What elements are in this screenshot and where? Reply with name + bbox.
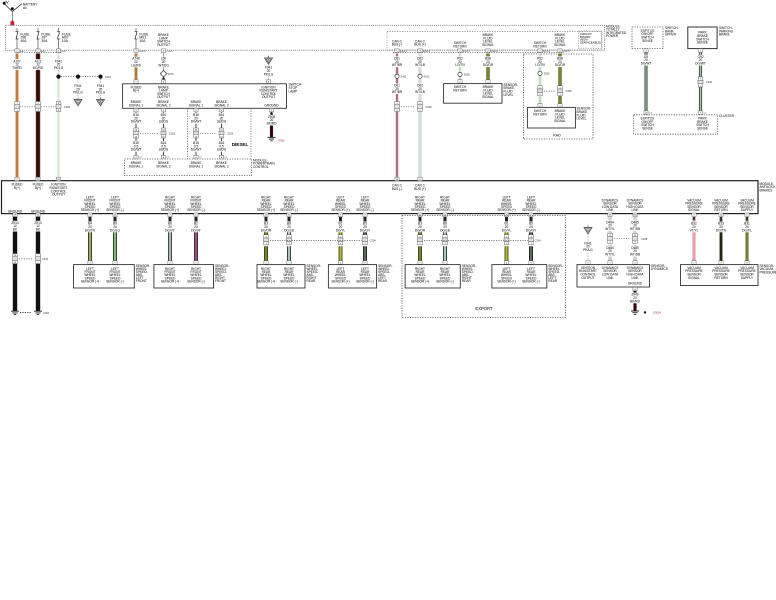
inline connector C306 (RHD)	[538, 86, 573, 96]
svg-text:SWITCHRETURN: SWITCHRETURN	[533, 41, 547, 48]
TIPM pin L50	[161, 49, 174, 53]
label SWITCH-BANK-UPPER	[665, 26, 679, 37]
wire D484 20 WT/YL lower label	[604, 246, 617, 257]
ground G300	[268, 137, 285, 142]
label SENSOR-WHEEL SPEED-ABS (right rear)	[462, 264, 477, 283]
svg-text:C306: C306	[566, 89, 573, 93]
wire Z913 12 BK ground left	[9, 217, 21, 311]
TIPM pin BFL signal RHD	[558, 49, 571, 53]
inline connector on brake signal wire 2	[161, 128, 166, 138]
switch bank upper (ESP/TCS) dashed box	[632, 27, 663, 49]
ABS bottom pin 4 (left front wss +)	[88, 213, 92, 221]
inline connector C308 on left wires	[15, 102, 71, 112]
TIPM pin label SWITCH RETURN	[453, 41, 467, 48]
EXPORT variant dashed box	[402, 216, 566, 318]
sensor wheel speed box (left rear)	[492, 265, 547, 288]
svg-text:C310: C310	[42, 257, 49, 261]
ABS pin 20 fused B+	[36, 177, 40, 181]
TIPM internal dashed partition	[387, 32, 602, 50]
wire B98 20 DG/OR brake fluid level signal	[482, 54, 495, 80]
svg-text:GROUND: GROUND	[31, 209, 46, 213]
svg-text:BRAKESIGNAL 2: BRAKESIGNAL 2	[156, 100, 170, 107]
ground G301 left	[11, 311, 19, 314]
inline connector on brake signal wire 3	[194, 128, 199, 138]
wire P52 20 LG/TN switch return (RHD)	[534, 54, 547, 104]
TIPM pin CAN-	[395, 49, 408, 53]
wire A111 12 DG/RD (fused B+)	[32, 54, 45, 178]
wire D485 20 WT/DB lower label	[629, 246, 642, 257]
svg-text:F30/C4: F30/C4	[139, 51, 147, 53]
svg-text:BRAKEFLUIDLEVELSIGNAL: BRAKEFLUIDLEVELSIGNAL	[482, 85, 494, 99]
sensor wheel speed box (right rear)	[257, 265, 305, 288]
svg-text:C306: C306	[426, 105, 433, 109]
label SENSOR-WHEEL SPEED-ABS (left rear)	[378, 264, 393, 283]
module TIPM (Totally Integrated Power Module) box	[6, 25, 605, 50]
TIPM pin CAN+	[418, 49, 431, 53]
module PCM powertrain control dashed box	[125, 159, 252, 176]
splice ring S411 on CAN C (-)	[395, 74, 407, 78]
inline connector on brake signal wire 4	[219, 128, 224, 138]
svg-text:S376: S376	[168, 72, 175, 76]
stop lamp switch internal labels	[129, 85, 279, 107]
svg-text:SENSOR-DYNAMICS: SENSOR-DYNAMICS	[651, 264, 668, 271]
wheel sensor pin 2	[264, 261, 268, 265]
ABS pin 14 CAN C -	[395, 177, 399, 181]
svg-text:ESP/TCSON/OFFSWITCHSENSE: ESP/TCSON/OFFSWITCHSENSE	[641, 29, 655, 43]
fuse F1 J98 40A	[15, 28, 30, 50]
svg-text:GROUND: GROUND	[8, 209, 23, 213]
switch parking brake box	[688, 27, 717, 49]
ABS pin 1 fused B+	[15, 177, 19, 181]
TIPM pin switch return RHD	[538, 49, 551, 53]
ABS bottom pin 11 (right rear wss -)	[287, 213, 291, 221]
splice ring S302	[458, 72, 470, 76]
stop lamp switch ground pin 2	[269, 108, 273, 114]
svg-text:BRAKEFLUIDLEVELSIGNAL: BRAKEFLUIDLEVELSIGNAL	[554, 109, 566, 123]
battery A0	[3, 0, 39, 12]
sensor dynamics box	[577, 265, 650, 287]
ABS bottom pin 11 (right rear wss -)	[443, 213, 447, 221]
wheel sensor pin 1	[529, 261, 533, 265]
switch S1 stop lamp box	[123, 84, 287, 109]
wire B6 20 DG/VT wheel speed	[164, 221, 177, 260]
ground G301 right	[20, 311, 50, 315]
dynamics sensor ignition pin 3	[586, 261, 590, 265]
wire B32 20 VT/YL vacuum pressure signal	[688, 220, 701, 260]
wire B16 0.5 LB/DG lower segment 4	[216, 141, 228, 152]
svg-text:B: B	[100, 100, 102, 104]
svg-text:-: -	[16, 4, 17, 7]
wire A107 12 TN/RD (fused B+)	[11, 54, 24, 178]
dynamics sensor low data pin 1	[608, 261, 612, 265]
dashed link C304 export rear wheel connectors	[424, 239, 541, 243]
label SENSOR-VACUUM PRESSURE	[760, 264, 776, 275]
ABS bottom pin 10 (right rear wss +)	[264, 213, 268, 221]
arrow into stop lamp switch pin 6	[162, 76, 165, 79]
battery terminal connector (red)	[10, 21, 14, 26]
label SWITCH-STOP LAMP	[289, 83, 303, 94]
dashed link C208 dynamics connectors	[614, 237, 648, 241]
ABS pin 2 vacuum pressure signal	[692, 213, 696, 220]
svg-text:S302: S302	[464, 73, 471, 77]
wire D484 20 WT/YL dynamics low data link	[604, 217, 617, 261]
TIPM pin label CAN C BUS (+)	[414, 39, 425, 46]
svg-text:SWITCHRETURN: SWITCHRETURN	[533, 109, 547, 116]
ABS bottom pin 2 (left rear wss +)	[338, 213, 342, 221]
splice ring S302 (RHD)	[538, 71, 550, 75]
svg-text:A: A	[77, 100, 79, 104]
svg-text:C201: C201	[169, 132, 176, 136]
RHD variant dashed box	[523, 54, 593, 139]
svg-text:L50/C7: L50/C7	[166, 51, 174, 53]
svg-text:BRAKESIGNAL 2: BRAKESIGNAL 2	[214, 161, 228, 168]
sensor brake fluid level box (LHD)	[444, 80, 502, 103]
stop lamp switch bottom pin 2 (brake signal)	[161, 108, 165, 112]
TIPM connector pin row dotted line	[17, 52, 564, 54]
wire B3 20 DG/OR wheel speed	[414, 221, 427, 260]
inline connector on wheel speed wire x=340.5	[334, 235, 347, 246]
wheel sensor pin 2	[418, 261, 422, 265]
fuse F3 M07 10A	[57, 28, 72, 50]
svg-text:CAN CBUS (+): CAN CBUS (+)	[414, 39, 425, 46]
wire B16 20 DG/WT brake signal 1	[130, 112, 142, 155]
svg-text:CAN CBUS (+): CAN CBUS (+)	[414, 184, 425, 191]
wire B16 0.5 DG/WT lower segment 3	[190, 141, 202, 152]
svg-text:DIESEL: DIESEL	[232, 142, 249, 147]
svg-text:A: A	[587, 228, 589, 232]
wire B1 20 DG/YL wheel speed	[334, 221, 347, 260]
wheel sensor pin 2	[88, 261, 92, 265]
inline connector on wheel speed wire x=289	[283, 235, 296, 246]
svg-text:GROUND: GROUND	[628, 282, 643, 286]
circuit board (non-serviceable) dashed box	[579, 31, 602, 48]
svg-text:EXPORT: EXPORT	[475, 306, 493, 311]
label MODULE-TOTALLY INTEGRATED POWER	[606, 24, 627, 38]
wire G9 20 DG/WT ESP/TCS switch sense	[640, 53, 653, 111]
svg-text:C308: C308	[64, 105, 71, 109]
label SENSOR-BRAKE FLUID LEVEL (RHD)	[577, 107, 592, 121]
off-page reference triangle A	[74, 97, 82, 106]
svg-text:BRAKESIGNAL 1: BRAKESIGNAL 1	[189, 100, 203, 107]
wire B98 20 DG/OR brake fluid level signal (RHD)	[554, 54, 567, 104]
wire B31 20 DG/YL vacuum pressure supply	[741, 220, 754, 260]
svg-text:C206: C206	[706, 80, 713, 84]
PCM pin brake signal 2	[161, 155, 170, 159]
fuse F2 J97 30A	[36, 28, 51, 50]
svg-text:VACUUMPRESSURESENSORSUPPLY: VACUUMPRESSURESENSORSUPPLY	[738, 266, 756, 280]
sensor brake fluid level box (RHD)	[527, 104, 575, 128]
ABS bottom pin 3 (left rear wss -)	[529, 213, 533, 221]
stop lamp switch bottom pin 5 (brake signal)	[194, 108, 198, 112]
svg-text:VACUUMPRESSURESENSORRETURN: VACUUMPRESSURESENSORRETURN	[712, 198, 730, 212]
svg-text:RHD: RHD	[553, 133, 561, 137]
svg-text:F97/C5: F97/C5	[543, 51, 551, 53]
inline connector C306 on CAN wires	[395, 102, 433, 112]
svg-text:CAN CBUS (-): CAN CBUS (-)	[392, 184, 403, 191]
TIPM pin E98	[15, 49, 25, 53]
svg-text:E98/C5: E98/C5	[400, 51, 408, 53]
fuse F4 M01 10A	[134, 28, 149, 50]
svg-text:VACUUMPRESSURESENSORRETURN: VACUUMPRESSURESENSORRETURN	[712, 266, 730, 280]
inline connector C310 on ground wires	[13, 254, 49, 264]
ABS top internal labels	[12, 183, 426, 197]
svg-text:S412: S412	[424, 74, 431, 78]
wire Z949 20 BK/RD dynamics ground	[629, 291, 642, 311]
svg-text:C304: C304	[370, 239, 377, 243]
svg-text:C304: C304	[535, 239, 542, 243]
wire B9 20 DG/LG wheel speed	[109, 221, 122, 260]
label CLUSTER	[719, 114, 735, 118]
wire B5 20 DG/GY wheel speed	[359, 221, 372, 260]
splice S301 junction dots and dotted link	[56, 75, 111, 80]
svg-text:S411: S411	[401, 74, 407, 78]
wheel sensor pin 2	[168, 261, 172, 265]
PCM pin brake signal 1	[134, 155, 143, 159]
TIPM pin label SWITCH RETURN (RHD)	[533, 41, 547, 48]
wheel sensor pin 1	[113, 261, 117, 265]
wheel sensor pin 2	[504, 261, 508, 265]
ABS pin 4 CAN C +	[418, 177, 422, 181]
wire P52 20 LG/TN switch return	[454, 54, 467, 80]
label MODULE-POWERTRAIN CONTROL	[253, 158, 275, 169]
TIPM pin label BRAKE FLUID LEVEL SIGNAL (RHD)	[554, 33, 566, 47]
wire Z913 12 BK ground right	[32, 217, 44, 311]
ABS ground pin 13	[36, 213, 40, 217]
TIPM pin F30	[134, 49, 147, 53]
stop lamp switch pin 6	[161, 80, 165, 84]
TIPM pin label BRAKE LAMP SWITCH OUTPUT	[157, 33, 171, 47]
ABS pin 10 vacuum pressure return	[719, 213, 723, 220]
DIESEL variant dashed box	[188, 108, 252, 159]
inline connector on wheel speed wire x=506.5	[500, 235, 513, 246]
svg-text:IGNITIONRUN/STARTCONTROLOUTPUT: IGNITIONRUN/STARTCONTROLOUTPUT	[50, 183, 68, 197]
wire B8 20 DG/LB wheel speed	[283, 221, 296, 260]
wire D485 20 WT/DB dynamics high data link	[629, 217, 642, 261]
sensor wheel speed box (right rear)	[405, 265, 460, 288]
wire B4 20 DG/TN wheel speed	[84, 221, 97, 260]
svg-text:BRAKELAMPSWITCHOUTPUT: BRAKELAMPSWITCHOUTPUT	[157, 85, 171, 99]
svg-text:IGNITIONRUN/STARTCONTROLOUTPUT: IGNITIONRUN/STARTCONTROLOUTPUT	[579, 266, 597, 280]
sensor wheel speed box (left rear)	[328, 265, 376, 288]
svg-text:G302A: G302A	[653, 310, 661, 314]
ABS bottom pin 3 (left rear wss -)	[363, 213, 367, 221]
label SENSOR-BRAKE FLUID LEVEL	[504, 83, 519, 97]
vacuum sensor pin 1	[692, 261, 696, 265]
cluster pins	[644, 111, 707, 115]
ABS pin 6 vacuum pressure supply	[745, 213, 749, 220]
svg-text:S302: S302	[544, 72, 551, 76]
svg-text:BRAKESIGNAL 2: BRAKESIGNAL 2	[156, 161, 170, 168]
inline connector on wheel speed wire x=445	[439, 235, 452, 246]
svg-text:G300: G300	[278, 138, 285, 142]
wire B16 20 DG/WT brake signal 1	[190, 112, 202, 155]
wire F941 20 PK/LG to dynamics sensor	[582, 234, 595, 261]
wire B33 20 DG/TN vacuum pressure return	[715, 220, 728, 260]
wire B3 20 DG/OR wheel speed	[260, 221, 273, 260]
svg-text:BRAKEFLUIDLEVELSIGNAL: BRAKEFLUIDLEVELSIGNAL	[482, 33, 494, 47]
ABS pin 26 dynamics low data	[608, 213, 612, 217]
label SENSOR-WHEEL SPEED-ABS (left front)	[136, 264, 151, 283]
wheel sensor pin 1	[443, 261, 447, 265]
wheel sensor pin 2	[338, 261, 342, 265]
stop lamp switch bottom pin 3 (brake signal)	[134, 108, 138, 112]
branch wire F941 to triangle A	[72, 79, 85, 97]
wire G92 20 DG/WT park brake switch sense	[694, 53, 707, 111]
dashed link inline connectors C201	[140, 132, 176, 136]
label SENSOR-WHEEL SPEED-ABS (right front)	[215, 264, 230, 283]
svg-text:G301: G301	[43, 311, 50, 315]
inline connector C208 on high data wire	[629, 233, 642, 244]
off-page reference triangle A (ignition run/start)	[584, 225, 592, 234]
switch bank pin 3	[644, 49, 648, 53]
wheel sensor pin 1	[287, 261, 291, 265]
svg-text:E107: E107	[61, 51, 67, 53]
wire B16 20 LB/DG brake signal 2	[158, 112, 170, 155]
wire battery to TIPM	[11, 12, 13, 22]
TIPM pin label BRAKE FLUID LEVEL SIGNAL	[482, 33, 494, 47]
label SENSOR-WHEEL SPEED-ABS (left rear)	[548, 264, 563, 283]
ABS bottom pin 2 (left rear wss +)	[504, 213, 508, 221]
svg-text:GROUND: GROUND	[264, 103, 279, 107]
PCM pin brake signal 3	[194, 155, 203, 159]
stop lamp switch bottom pin 6 (brake signal)	[219, 108, 223, 112]
stop lamp switch pin 4	[266, 80, 270, 84]
wheel sensor pin 1	[363, 261, 367, 265]
ABS bottom pin 10 (right rear wss +)	[418, 213, 422, 221]
wire B16 0.5 DG/WT lower segment 1	[130, 141, 142, 152]
svg-text:BRAKELAMPSWITCHOUTPUT: BRAKELAMPSWITCHOUTPUT	[157, 33, 171, 47]
label SENSOR-WHEEL SPEED-ABS (right rear)	[307, 264, 322, 283]
dashed link inline connectors C202	[200, 132, 234, 136]
svg-text:ESP/TCSON/OFFSWITCHSENSE: ESP/TCSON/OFFSWITCHSENSE	[641, 117, 655, 131]
inline connector on wheel speed wire x=365	[359, 235, 372, 246]
TIPM pin label CAN C BUS (-)	[392, 39, 403, 46]
wire D62 20 WT/LB CAN C bus (+)	[414, 54, 427, 178]
wire B2 20 DG/VT wheel speed	[190, 221, 203, 260]
PCM pin brake signal 4	[219, 155, 228, 159]
label SENSOR-DYNAMICS	[651, 264, 668, 271]
wire B1 20 DG/YL wheel speed	[500, 221, 513, 260]
stop lamp switch pin 1	[134, 80, 138, 84]
inline connector C206 on park brake wire	[698, 77, 713, 87]
svg-text:E99/C5: E99/C5	[423, 51, 431, 53]
wire D62 20 WT/LB lower label	[414, 83, 427, 94]
vacuum sensor pin 2	[719, 261, 723, 265]
svg-text:CAN CBUS (-): CAN CBUS (-)	[392, 39, 403, 46]
wire Z908 20 BK/RD ground	[266, 115, 278, 138]
inline connector on wheel speed wire x=420	[414, 235, 427, 246]
off-page reference triangle B	[97, 97, 105, 106]
label MODULE-ANTILOCK BRAKES	[760, 182, 776, 193]
svg-text:F98/C5: F98/C5	[491, 51, 499, 53]
ABS pin 040 dynamics high data	[633, 213, 638, 217]
sensor wheel speed box (left front)	[74, 265, 135, 288]
TIPM pin E107	[56, 49, 67, 53]
ground G302A	[631, 310, 661, 314]
splice ring S412 on CAN C (+)	[418, 74, 430, 78]
TIPM pin switch return	[458, 49, 471, 53]
svg-text:BRAKESIGNAL 1: BRAKESIGNAL 1	[129, 100, 143, 107]
vacuum sensor pin 3	[745, 261, 749, 265]
wire A748 20 LG/RD fused B+ to stop lamp switch	[130, 54, 143, 80]
wire F941 20 PK/LG (ign run/start)	[52, 54, 65, 178]
svg-text:SWITCHRETURN: SWITCHRETURN	[453, 41, 467, 48]
svg-text:BRAKESIGNAL 2: BRAKESIGNAL 2	[214, 100, 228, 107]
wheel sensor pin 1	[194, 261, 198, 265]
inline connector on wheel speed wire x=531	[525, 235, 538, 246]
dashed link C304 rear wheel connectors	[270, 239, 376, 243]
svg-text:C208: C208	[641, 237, 648, 241]
wire L50 20 WT/DG brake lamp switch output	[157, 54, 170, 71]
ABS bottom pin 7 (right front wss +)	[168, 213, 172, 221]
module ABS antilock brakes box	[2, 181, 759, 214]
sensor vacuum pressure box	[681, 265, 759, 286]
wire B16 0.5 LB/DG lower segment 2	[158, 141, 170, 152]
svg-text:B: B	[268, 59, 270, 63]
off-page reference triangle B (ignition run/start)	[265, 56, 273, 65]
svg-text:IGNITIONRUN/STARTCONTROLOUTPUT: IGNITIONRUN/STARTCONTROLOUTPUT	[260, 85, 278, 99]
wire B16 20 LB/DG brake signal 2	[216, 112, 228, 155]
svg-text:CLUSTER: CLUSTER	[719, 114, 735, 118]
branch wire F941 to triangle B	[94, 79, 107, 97]
wire F941 20 PK/LG to stop lamp switch pin 4	[262, 64, 275, 79]
svg-text:BRAKEFLUIDLEVELSIGNAL: BRAKEFLUIDLEVELSIGNAL	[554, 33, 566, 47]
dynamics sensor ground pin 4	[633, 287, 637, 291]
svg-text:F98/C5: F98/C5	[563, 51, 571, 53]
svg-text:VACUUMPRESSURESENSORSUPPLY: VACUUMPRESSURESENSORSUPPLY	[738, 198, 756, 212]
svg-text:SWITCHRETURN: SWITCHRETURN	[453, 85, 467, 92]
inline connector on wheel speed wire x=266	[260, 235, 273, 246]
TIPM pin BFL signal	[486, 49, 499, 53]
svg-text:BRAKESIGNAL 1: BRAKESIGNAL 1	[129, 161, 143, 168]
wire D61 20 WT/BR CAN C bus (-)	[391, 54, 404, 178]
sensor wheel speed box (right front)	[154, 265, 214, 288]
ABS ground pin 29	[13, 213, 17, 217]
inline connector C208 on low data wire	[604, 233, 617, 244]
splice diamond S376	[160, 70, 174, 77]
label SWITCH-PARKING BRAKE	[719, 26, 734, 37]
ABS bottom pin 8 (right front wss -)	[194, 213, 198, 221]
inline connector on brake signal wire 1	[134, 128, 139, 138]
ABS bottom internal labels (wheel speed, ground)	[8, 195, 756, 213]
wire D61 20 WT/BR lower label	[391, 83, 404, 94]
svg-text:S301: S301	[105, 75, 112, 79]
svg-text:F97/C5: F97/C5	[463, 51, 471, 53]
wire B8 20 DG/LB wheel speed	[439, 221, 452, 260]
ABS pin 16 ignition	[56, 177, 60, 181]
park brake switch pin 1	[698, 49, 702, 53]
cluster dashed box	[634, 115, 718, 134]
dynamics sensor high data pin 2	[633, 261, 637, 265]
wire B5 20 DG/GY wheel speed	[525, 221, 538, 260]
ABS bottom pin 16 (left front wss -)	[113, 213, 117, 221]
TIPM pin E99	[36, 49, 46, 53]
svg-text:C202: C202	[227, 132, 234, 136]
svg-text:BRAKESIGNAL 1: BRAKESIGNAL 1	[189, 161, 203, 168]
